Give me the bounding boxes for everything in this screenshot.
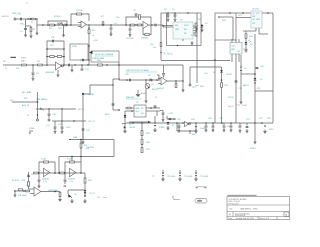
- node: [126, 79, 128, 81]
- wire corner2: [189, 67, 191, 84]
- capacitor C13: [81, 65, 83, 68]
- capacitor C35: [230, 123, 232, 125]
- ground open: [84, 199, 87, 203]
- svg-text:IN_SUM: IN_SUM: [12, 180, 19, 182]
- node B: [36, 18, 38, 20]
- node: [189, 130, 191, 132]
- resistor R37: [26, 190, 30, 192]
- svg-text:(BIAS NET): (BIAS NET): [126, 96, 135, 99]
- wire: [236, 17, 251, 19]
- svg-text:R33: R33: [84, 145, 87, 147]
- svg-text:R1: R1: [31, 22, 33, 24]
- svg-text:(OPT): (OPT): [228, 97, 234, 99]
- capacitor C2: [25, 26, 27, 28]
- diode D8: [84, 190, 87, 192]
- capacitor C28: [169, 118, 172, 119]
- wire row y80: [119, 79, 160, 81]
- feedback wire op-amp U1: [71, 14, 89, 25]
- net flag dash: [11, 57, 17, 58]
- test point TP5: [195, 170, 197, 174]
- node out U2: [151, 24, 153, 26]
- capacitor C4 polarized: [110, 24, 112, 26]
- svg-text:100n: 100n: [66, 127, 70, 129]
- svg-text:VBIAS: VBIAS: [88, 93, 95, 96]
- svg-text:Title: Title: [229, 208, 232, 211]
- ground: [167, 126, 170, 130]
- cluster top right corner: [167, 116, 176, 119]
- connector: [37, 119, 39, 121]
- IC U3 regulator: [173, 22, 193, 39]
- ground: [178, 129, 181, 133]
- wire pin bottom2: [258, 28, 260, 34]
- resistor R14: [245, 31, 247, 33]
- resistor R39: [84, 178, 86, 183]
- node: [32, 64, 34, 66]
- node: [46, 64, 48, 66]
- node: [176, 122, 178, 124]
- diode D3: [220, 70, 223, 72]
- wire pin bottom: [255, 28, 257, 31]
- svg-text:+15V: +15V: [93, 40, 98, 42]
- wire: [26, 25, 32, 27]
- node: [102, 24, 104, 26]
- wire v x59: [58, 157, 60, 174]
- node: [38, 172, 40, 174]
- wire rail row2: [3, 64, 183, 66]
- wire pins left: [163, 25, 173, 27]
- op-amp U2: [143, 21, 148, 28]
- node: [229, 12, 231, 14]
- svg-text:R16: R16: [37, 61, 40, 63]
- svg-text:PGND: PGND: [159, 127, 165, 129]
- node: [48, 108, 50, 110]
- ground: [240, 100, 243, 104]
- wire out U6: [167, 80, 183, 82]
- wire stub: [12, 101, 38, 103]
- op-amp U1: [81, 21, 86, 28]
- resistor input U9: [34, 172, 38, 174]
- feedback wire U9: [39, 162, 55, 173]
- ground: [145, 99, 148, 103]
- switch SW1: [40, 108, 42, 110]
- bottom row: [257, 217, 259, 220]
- connector TP: [189, 84, 191, 86]
- svg-text:DGND: DGND: [200, 128, 206, 130]
- pill shape: [195, 199, 207, 204]
- svg-text:LM4562: LM4562: [141, 38, 149, 40]
- capacitor C10: [32, 65, 34, 72]
- ground stage1: [38, 184, 41, 188]
- wire y110: [113, 109, 120, 111]
- svg-text:BAT54: BAT54: [243, 84, 249, 87]
- right column x85: [84, 173, 86, 196]
- ground: [14, 191, 16, 193]
- svg-text:VREF: VREF: [29, 128, 35, 130]
- capacitor C33 below rail: [239, 123, 241, 125]
- node: [71, 156, 73, 158]
- node: [88, 45, 90, 47]
- arrow gnd2: [195, 126, 197, 128]
- node: [150, 107, 152, 109]
- wire v x72: [71, 157, 73, 163]
- label gray stub: [244, 51, 248, 53]
- wire main: [33, 172, 59, 174]
- wire: [61, 109, 63, 121]
- wire y139 line B: [71, 139, 114, 141]
- resistor R1: [32, 18, 36, 20]
- node: [132, 122, 134, 124]
- resistor R21: [175, 81, 177, 83]
- svg-text:3V3_A: 3V3_A: [167, 53, 173, 56]
- ground: [182, 88, 185, 92]
- resistor R20: [98, 64, 103, 66]
- wire pins right: [193, 25, 197, 27]
- wire y156 line A: [59, 156, 114, 158]
- svg-text:SCL: SCL: [136, 111, 139, 113]
- capacitor below U10: [64, 173, 66, 179]
- wire: [182, 81, 184, 88]
- arrow: [84, 196, 86, 198]
- resistor R9: [130, 24, 134, 26]
- wire v x146: [145, 93, 147, 99]
- capacitor C8: [167, 13, 169, 15]
- svg-text:R35: R35: [22, 180, 25, 182]
- module box PSU: [167, 13, 202, 46]
- wire main row1b: [120, 24, 143, 26]
- resistor R40: [160, 43, 162, 47]
- svg-text:VREF3: VREF3: [243, 49, 248, 51]
- svg-text:1N4148: 1N4148: [226, 74, 232, 76]
- capacitor C6: [129, 25, 131, 28]
- diode D7: [167, 122, 170, 124]
- node out U1: [88, 24, 90, 26]
- wire y74: [241, 73, 255, 75]
- resistor R5: [77, 13, 82, 15]
- wire row y121: [52, 120, 86, 122]
- wire v x155: [154, 116, 156, 123]
- wire v x215: [214, 40, 216, 123]
- wire v x114: [113, 140, 115, 157]
- wire v x221: [221, 67, 223, 123]
- wire v x113: [112, 85, 114, 110]
- op-amp U5: [56, 62, 62, 70]
- wire v x236: [235, 54, 237, 123]
- svg-text:D3: D3: [213, 72, 215, 74]
- capacitor C31: [212, 123, 214, 125]
- svg-text:R24: R24: [257, 88, 260, 90]
- resistor R35: [28, 182, 30, 187]
- diode D5: [254, 78, 257, 80]
- pin bottom 3: [238, 54, 240, 62]
- ground: [174, 18, 177, 22]
- svg-text:GND: GND: [175, 29, 180, 31]
- svg-text:(SEE TABLE): (SEE TABLE): [36, 98, 48, 101]
- svg-text:SHLD: SHLD: [228, 106, 234, 108]
- resistor R16: [38, 64, 43, 66]
- wire v x37: [37, 92, 39, 119]
- node: [125, 24, 127, 26]
- wire y91: [255, 90, 273, 92]
- svg-text:R 10k: R 10k: [67, 159, 72, 161]
- node: [212, 122, 214, 124]
- IC U4: [251, 11, 262, 28]
- resistor R23: [221, 83, 223, 88]
- wire rail right: [272, 13, 274, 123]
- capacitor C24: [154, 106, 157, 107]
- capacitor C20: [256, 67, 259, 68]
- ground: [201, 28, 204, 32]
- ladder rung3 resistor R18 R19: [47, 56, 64, 58]
- node: [214, 59, 216, 61]
- wire: [63, 25, 65, 33]
- op-amp U9: [44, 168, 50, 176]
- capacitor C17: [54, 121, 56, 126]
- svg-text:NOTE: SET JUMPER: NOTE: SET JUMPER: [95, 54, 114, 56]
- capacitor C29: [178, 123, 180, 125]
- svg-text:R23: R23: [225, 85, 228, 87]
- node: [88, 27, 90, 29]
- node: [167, 12, 169, 14]
- wire row y191 left: [14, 190, 30, 192]
- pin top 2: [235, 39, 237, 43]
- pin bottom 1: [231, 54, 233, 62]
- svg-text:AUX_IN: AUX_IN: [22, 104, 30, 107]
- resistor R33: [80, 143, 82, 148]
- node: [177, 45, 179, 47]
- node: [14, 190, 16, 192]
- wire corner: [113, 78, 120, 80]
- diode D4: [240, 66, 242, 68]
- ground: [82, 140, 85, 144]
- resistor R12: [195, 23, 197, 27]
- svg-text:GND: GND: [256, 19, 261, 21]
- ground: [32, 77, 35, 81]
- wire rail x161: [160, 13, 162, 60]
- node: [118, 109, 120, 111]
- node: [80, 139, 82, 141]
- svg-text:2N7002: 2N7002: [129, 127, 135, 129]
- wire inner: [219, 16, 233, 18]
- svg-text:10n: 10n: [153, 47, 156, 49]
- module box filter: [215, 13, 236, 40]
- ladder cap C11: [47, 41, 63, 65]
- svg-text:D5: D5: [260, 79, 262, 81]
- capacitor C16 polarized: [48, 109, 50, 113]
- transistor-ish arrow: [30, 18, 32, 20]
- node stage2: [64, 185, 66, 187]
- svg-text:R34: R34: [86, 148, 89, 150]
- svg-text:CLK: CLK: [204, 73, 209, 75]
- svg-text:1u: 1u: [20, 31, 22, 33]
- svg-text:AUDIO: AUDIO: [2, 15, 9, 18]
- svg-text:GND_A: GND_A: [20, 23, 27, 26]
- resistor R10: [137, 24, 141, 26]
- hook shape: [173, 196, 180, 200]
- wire arrow: [89, 51, 93, 54]
- svg-text:R2: R2: [33, 29, 35, 31]
- LED D2: [245, 39, 247, 43]
- svg-text:U12: U12: [232, 46, 235, 48]
- svg-text:Sheet 1 of 3: Sheet 1 of 3: [259, 217, 269, 220]
- wire: [236, 12, 251, 14]
- svg-text:R36 100R: R36 100R: [18, 195, 27, 197]
- resistor stack R31: [141, 144, 143, 147]
- node: [61, 120, 63, 122]
- capacitor C19: [235, 81, 238, 82]
- svg-text:Z1: Z1: [5, 68, 7, 70]
- resistor R36: [18, 189, 23, 191]
- wire main row1: [37, 24, 81, 26]
- svg-text:BC847: BC847: [152, 89, 158, 91]
- buffer U8: [185, 121, 189, 126]
- resistor R27: [127, 107, 131, 109]
- node: [173, 118, 175, 120]
- diode D6: [124, 115, 127, 117]
- ground: [30, 34, 33, 38]
- ground U3: [182, 39, 184, 41]
- ground flag AGND: [137, 90, 139, 94]
- svg-text:REF: REF: [232, 49, 235, 51]
- wire inputs: [29, 188, 35, 190]
- wire pins left: [125, 107, 134, 109]
- feedback wire U2: [126, 17, 151, 25]
- capacitor: [27, 175, 30, 176]
- wire row y109: [36, 108, 76, 110]
- node big: [82, 93, 84, 95]
- svg-text:LM4562: LM4562: [157, 88, 164, 90]
- capacitor C15: [163, 65, 165, 73]
- capacitor C27: [150, 79, 151, 82]
- resistor input U10: [60, 172, 64, 174]
- svg-text:TP5 GND: TP5 GND: [200, 176, 209, 178]
- capacitor C7: [155, 24, 156, 27]
- ground open: [195, 129, 198, 133]
- svg-text:OUT_L: OUT_L: [78, 109, 85, 111]
- ground: [71, 68, 74, 72]
- resistor R8 feedback: [139, 15, 141, 20]
- pin top 3: [238, 39, 240, 43]
- wire v: [156, 111, 158, 116]
- feedback bottom U2: [143, 25, 151, 35]
- size box: [232, 212, 234, 217]
- svg-text:C33: C33: [26, 185, 29, 187]
- wire col x28: [28, 172, 30, 189]
- node: [156, 79, 158, 81]
- svg-text:SHDN: SHDN: [242, 105, 248, 107]
- svg-text:VCC: VCC: [238, 15, 243, 17]
- box small: [70, 44, 88, 60]
- wire v x81: [80, 140, 82, 163]
- bracket: [157, 75, 159, 80]
- ground open: [124, 129, 127, 133]
- transistor Q3: [68, 194, 72, 198]
- resistor R6: [88, 25, 90, 29]
- feedback below: [177, 123, 196, 131]
- svg-text:PGND1: PGND1: [250, 148, 256, 150]
- svg-text:SCH-0042-B: SCH-0042-B: [235, 215, 246, 217]
- connector: [48, 119, 50, 121]
- capacitor C39: [162, 111, 164, 113]
- ground: [254, 140, 257, 144]
- wire v x255 below: [254, 123, 256, 140]
- ground: [129, 33, 132, 37]
- power flag 3V3: [160, 52, 162, 54]
- resistor stack R30: [141, 135, 143, 139]
- svg-text:Q3: Q3: [74, 194, 76, 196]
- wire gnd drop U5: [57, 70, 59, 73]
- svg-text:IN2: IN2: [3, 61, 6, 63]
- IC U7: [134, 105, 146, 117]
- wire v x255: [254, 50, 256, 123]
- svg-text:R15: R15: [21, 61, 24, 63]
- node: [81, 64, 83, 66]
- ground: [54, 130, 57, 134]
- pin top 1: [231, 39, 233, 43]
- rev box: [284, 212, 289, 216]
- svg-text:TP6: TP6: [97, 197, 100, 199]
- ground: [162, 118, 165, 122]
- ground: [62, 33, 65, 37]
- svg-text:C27: C27: [148, 75, 151, 77]
- wire inner v: [232, 17, 234, 40]
- svg-text:OUT_R: OUT_R: [88, 121, 95, 123]
- svg-text:LM4562MA: LM4562MA: [45, 71, 55, 74]
- capacitor C12: [68, 64, 69, 67]
- resistor R11: [145, 34, 149, 36]
- node: [254, 73, 256, 75]
- wire corner: [182, 65, 184, 81]
- node: [54, 191, 56, 193]
- node: [221, 79, 223, 81]
- node: [196, 25, 198, 27]
- capacitor C26: [129, 79, 130, 82]
- node: [64, 172, 66, 174]
- wire out: [262, 12, 273, 14]
- resistor R4: [50, 24, 55, 26]
- svg-text:R39: R39: [88, 180, 91, 182]
- wire v: [88, 46, 90, 65]
- capacitor C34 below rail: [246, 123, 248, 126]
- resistor feedback U10: [70, 161, 75, 163]
- svg-text:10u: 10u: [116, 17, 119, 19]
- ladder rung2: [47, 48, 64, 50]
- resistor R15: [22, 64, 27, 66]
- ground: [36, 31, 39, 35]
- svg-text:Date:: Date:: [229, 217, 234, 220]
- ground: [110, 32, 113, 36]
- node: [70, 24, 72, 26]
- capacitor C18: [61, 121, 63, 126]
- node: [58, 172, 60, 174]
- resistor stack R29: [141, 123, 143, 130]
- wire: [189, 131, 191, 134]
- net tick: [69, 139, 71, 141]
- svg-text:R5 10k: R5 10k: [76, 10, 82, 12]
- capacitor C25 polarized: [82, 129, 85, 130]
- svg-text:OUT_B: OUT_B: [89, 193, 96, 195]
- wire z: [83, 79, 113, 94]
- svg-text:R3 47k: R3 47k: [54, 16, 60, 18]
- test point TP3: [162, 170, 164, 174]
- resistor R13: [195, 27, 197, 32]
- node A: [27, 18, 29, 20]
- svg-text:C6 100n: C6 100n: [126, 38, 134, 40]
- wire: [254, 34, 256, 50]
- node: [84, 192, 86, 194]
- trimmer RV1: [58, 23, 62, 25]
- feedback wire U10: [65, 162, 81, 173]
- resistor feedback U9: [44, 161, 49, 163]
